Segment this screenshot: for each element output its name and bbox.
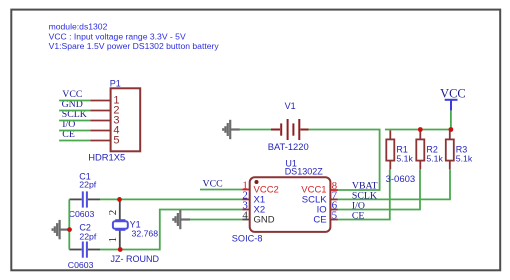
wire VCC net to P1.1 — [59, 100, 90, 102]
svg-text:22pf: 22pf — [79, 179, 96, 189]
svg-text:module:ds1302: module:ds1302 — [49, 21, 108, 31]
svg-text:32.768: 32.768 — [132, 229, 159, 239]
svg-text:5.1k: 5.1k — [426, 154, 443, 164]
svg-text:VCC: VCC — [440, 87, 465, 101]
ground symbol (C1/C2 branch) — [53, 220, 70, 239]
U1 pin stub 3 — [242, 209, 250, 211]
svg-text:V1: V1 — [285, 101, 296, 111]
svg-text:P1: P1 — [110, 78, 121, 88]
wire VCC net to U1.1 — [200, 189, 242, 191]
wire C1 left to C2 left — [68, 199, 70, 249]
svg-text:5.1k: 5.1k — [456, 154, 473, 164]
wire I/O to R2 — [338, 169, 420, 209]
wire I/O net to P1.4 — [59, 130, 90, 132]
svg-text:CE: CE — [313, 214, 326, 225]
U1 pin stub 6 — [330, 209, 338, 211]
svg-text:5.1k: 5.1k — [396, 154, 413, 164]
svg-text:SOIC-8: SOIC-8 — [232, 234, 263, 244]
svg-text:2: 2 — [107, 210, 119, 216]
wire ground to battery — [240, 129, 272, 131]
resistor R3 — [446, 130, 454, 169]
svg-text:1: 1 — [107, 237, 119, 243]
U1 pin stub 2 — [242, 198, 250, 200]
annotation text block — [49, 21, 220, 51]
power symbol VCC — [440, 87, 465, 111]
junction dot crystal bottom — [118, 247, 123, 252]
connector P1 pin stubs — [90, 101, 110, 141]
svg-text:JZ- ROUND: JZ- ROUND — [111, 254, 160, 264]
battery V1 — [271, 119, 309, 140]
resistor R1 — [386, 130, 394, 169]
wire ground to U1.4 (GND net) — [190, 219, 242, 221]
svg-text:HDR1X5: HDR1X5 — [88, 151, 125, 162]
wire C1 to U1.2 (X1 net) — [100, 198, 242, 200]
svg-text:VCC: VCC — [203, 179, 223, 190]
ground symbol (U1 GND pin) — [173, 210, 190, 229]
svg-text:DS1302Z: DS1302Z — [285, 167, 324, 177]
U1 pin stub 7 — [330, 198, 338, 200]
wire GND net to P1.2 — [59, 110, 90, 112]
svg-text:C0603: C0603 — [69, 209, 95, 219]
crystal Y1 — [113, 199, 128, 249]
wire battery to VBAT net — [309, 130, 380, 191]
U1 pin stub 5 — [330, 219, 338, 221]
svg-text:5: 5 — [332, 210, 338, 222]
junction dot R2 top — [418, 127, 423, 132]
ground symbol (battery) — [223, 120, 240, 139]
P1 pin numbers 1-5 — [113, 95, 119, 147]
U1 pin stub 4 — [242, 219, 250, 221]
connector P1 body — [111, 88, 141, 151]
svg-text:V1:Spare 1.5V power DS1302 but: V1:Spare 1.5V power DS1302 button batter… — [49, 41, 220, 51]
capacitor C1 — [69, 191, 100, 207]
wire CE net to P1.5 — [59, 140, 90, 142]
U1 pin stub 1 — [242, 189, 250, 191]
U1 pin stub 8 — [330, 189, 338, 191]
wire VCC symbol drop — [450, 110, 452, 129]
op-amp: IC U1 DS1302Z body — [250, 177, 331, 232]
svg-text:3-0603: 3-0603 — [386, 174, 416, 185]
wire VCC rail over resistors — [385, 129, 451, 131]
wire SCLK net to P1.3 — [59, 120, 90, 122]
junction dot crystal top — [117, 197, 122, 202]
svg-text:22pf: 22pf — [79, 231, 96, 241]
wire SCLK to R3 — [338, 169, 450, 199]
wire crystal bottom to U1.3 (X2 net) — [100, 210, 242, 250]
svg-text:BAT-1220: BAT-1220 — [268, 141, 309, 152]
capacitor C2 — [69, 242, 100, 258]
U1 pin-1 marker dot — [255, 180, 259, 184]
junction dot R3 top / VCC — [449, 127, 454, 132]
svg-text:GND: GND — [254, 214, 275, 225]
svg-text:4: 4 — [242, 210, 248, 222]
resistor R2 — [416, 130, 424, 169]
junction dot ground/caps — [67, 227, 72, 232]
wire CE to R1 — [338, 169, 390, 219]
svg-text:C0603: C0603 — [68, 260, 94, 270]
svg-text:5: 5 — [113, 135, 119, 147]
